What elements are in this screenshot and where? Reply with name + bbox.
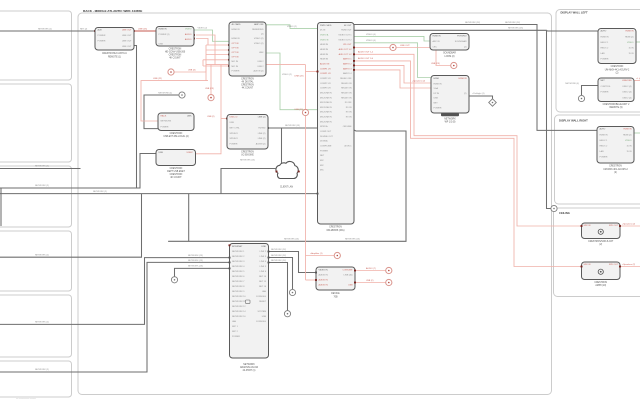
svg-text:LINE (2): LINE (2) [258,133,266,135]
svg-text:NETWORK 2: NETWORK 2 [232,256,245,258]
svg-text:4K IN: 4K IN [320,30,326,32]
svg-text:VIDEO (4): VIDEO (4) [366,34,376,36]
svg-text:UM-NMX-4K1-ACURV-2: UM-NMX-4K1-ACURV-2 [605,68,630,71]
svg-text:NETWORK 7: NETWORK 7 [232,281,245,283]
svg-text:INTERNET: INTERNET [232,246,243,248]
svg-text:CRESTRON: CRESTRON [170,168,183,170]
svg-text:4K DIGITAL: 4K DIGITAL [242,81,255,84]
svg-text:CRESTRON: CRESTRON [611,66,624,68]
svg-text:IR OFF: IR OFF [345,102,353,104]
svg-text:NETWORK (2): NETWORK (2) [35,369,49,371]
svg-text:HELIX 1: HELIX 1 [601,42,610,44]
svg-text:USB-EXT-DM-LOCAL (2): USB-EXT-DM-LOCAL (2) [163,135,189,138]
svg-text:POWER (1): POWER (1) [159,34,170,36]
svg-text:SPDIF/O: SPDIF/O [230,138,239,140]
svg-text:4K COUNT: 4K COUNT [170,177,182,179]
svg-text:HDMI IN: HDMI IN [320,49,328,51]
svg-text:VIDEO (2): VIDEO (2) [282,74,292,76]
svg-text:REMOTE (3): REMOTE (3) [609,107,622,109]
svg-text:USB 2: USB 2 [257,66,264,68]
svg-text:NETWORK (2X): NETWORK (2X) [188,255,203,257]
svg-text:DM-MD8X8 (DIG): DM-MD8X8 (DIG) [327,230,345,232]
svg-text:NET CTRL: NET CTRL [230,127,241,129]
svg-text:NETWORK 12: NETWORK 12 [232,306,246,308]
svg-text:WP 1/2 (8): WP 1/2 (8) [445,122,456,124]
svg-text:HDMI IN: HDMI IN [320,54,328,56]
svg-text:CRESTRON: CRESTRON [169,48,182,50]
svg-text:POWER: POWER [320,150,328,152]
svg-text:VIDEO A: VIDEO A [320,33,329,36]
svg-text:VIDEO OUT 2: VIDEO OUT 2 [338,39,352,41]
svg-text:USB: USB [159,152,164,154]
svg-text:4K COUNT: 4K COUNT [169,58,181,60]
svg-text:AUDIO: AUDIO [185,38,192,41]
svg-text:LAN: LAN [600,150,605,153]
svg-text:DP IN: DP IN [434,93,440,95]
svg-text:AUDIO: AUDIO [185,33,192,36]
svg-text:NETWORK 5: NETWORK 5 [232,271,245,273]
svg-text:VIDEO: VIDEO [625,140,632,142]
svg-text:NETWORK (2): NETWORK (2) [38,28,52,30]
svg-text:NETWORK 6: NETWORK 6 [232,276,245,278]
svg-text:MIC/LINE IN: MIC/LINE IN [320,97,332,99]
svg-text:NET 16: NET 16 [259,286,267,288]
svg-text:LINE OUT: LINE OUT [122,35,132,37]
svg-text:LINK 4: LINK 4 [260,261,267,263]
svg-text:NETWORK (13): NETWORK (13) [285,125,300,127]
svg-text:NETWORK 11: NETWORK 11 [232,301,246,303]
svg-text:POWER: POWER [230,144,238,146]
svg-text:— ————— ———: — ————— ——— [16,398,37,400]
svg-text:SOUNDBAR: SOUNDBAR [455,40,467,43]
svg-text:NETWORK (2): NETWORK (2) [93,191,107,193]
svg-text:RELAY ON: RELAY ON [341,82,352,85]
svg-text:AUX: AUX [98,28,103,31]
svg-text:UM-NMX-4K1-ACURV-2: UM-NMX-4K1-ACURV-2 [603,168,628,171]
svg-text:LINE OUT: LINE OUT [122,29,132,31]
svg-text:AUDIO IN: AUDIO IN [319,273,329,276]
svg-text:USB 2: USB 2 [257,61,264,63]
svg-text:MIC: MIC [320,165,324,167]
svg-text:4K COUNT: 4K COUNT [242,88,254,90]
svg-text:USB: USB [434,98,439,100]
svg-text:POWER: POWER [232,70,240,72]
svg-text:LINE OUT: LINE OUT [122,46,132,48]
svg-text:AMP OFF: AMP OFF [254,23,264,26]
svg-text:15 IN: 15 IN [629,48,634,50]
svg-text:NET: NET [434,103,439,105]
svg-text:NETWORK (2X): NETWORK (2X) [271,260,286,262]
svg-text:HDMI IN: HDMI IN [232,29,240,31]
svg-text:OFFLINE: OFFLINE [343,126,352,128]
svg-text:15 IN: 15 IN [627,151,632,153]
svg-text:RELAY OFF: RELAY OFF [340,77,352,80]
svg-text:DEPT USB ENET: DEPT USB ENET [167,171,185,173]
svg-text:AUDIO (7): AUDIO (7) [366,267,376,270]
svg-text:HDMI IN: HDMI IN [459,78,467,80]
svg-text:USB 2.0: USB 2.0 [230,117,239,119]
svg-text:VIDEO (2): VIDEO (2) [254,38,264,40]
svg-text:SPDIF/O: SPDIF/O [230,133,239,135]
svg-text:LINE (46): LINE (46) [344,274,353,276]
svg-text:+L (4): +L (4) [636,78,640,80]
svg-text:VIDEO: VIDEO [185,29,192,31]
svg-text:AUX/M (2): AUX/M (2) [256,143,266,146]
svg-text:HDMI OUT: HDMI OUT [341,30,352,32]
svg-text:LINE (2): LINE (2) [258,138,266,140]
svg-text:AUDIO OUT 3-4: AUDIO OUT 3-4 [358,57,374,60]
svg-text:HDMI IN: HDMI IN [159,29,167,31]
svg-text:LAN: LAN [262,290,267,293]
svg-text:PORT/NO: PORT/NO [457,36,467,38]
svg-text:RACK: RACK [161,114,167,117]
svg-text:USB: USB [348,285,353,287]
svg-text:+Amplifier (1): +Amplifier (1) [310,252,323,255]
svg-text:CRESTRON/SON-8-C6T: CRESTRON/SON-8-C6T [588,241,614,243]
svg-text:CRESTRON: CRESTRON [170,174,183,176]
svg-text:LINE OUT: LINE OUT [122,40,132,42]
svg-text:IR ON: IR ON [346,117,352,119]
svg-text:REMOTE (1): REMOTE (1) [108,56,121,58]
svg-text:COMP3 LR: COMP3 LR [320,88,331,90]
svg-text:POWER: POWER [232,336,240,338]
svg-text:CEC: CEC [433,46,438,48]
svg-text:NETWORK (2X): NETWORK (2X) [508,28,523,30]
svg-text:LINK: LINK [259,52,264,54]
svg-text:SPK OUT: SPK OUT [609,264,619,266]
svg-text:HD-CONV-USB-260: HD-CONV-USB-260 [165,51,186,53]
svg-text:LAN: LAN [232,320,237,323]
svg-text:NETWORK (13): NETWORK (13) [345,239,360,241]
svg-text:MIC/LINE IN: MIC/LINE IN [320,117,332,119]
svg-text:USB 2 (4): USB 2 (4) [622,86,631,88]
svg-text:USB: USB [230,122,235,124]
svg-text:OPT IN: OPT IN [232,43,239,45]
svg-text:NETWORK (2X): NETWORK (2X) [271,255,286,257]
svg-text:HDMI IN: HDMI IN [434,83,442,85]
svg-text:MIC/LINE IN: MIC/LINE IN [320,102,332,104]
svg-text:NET 15: NET 15 [259,281,267,283]
svg-text:AUTO: AUTO [601,30,607,33]
svg-text:AMP/O 2: AMP/O 2 [343,62,352,65]
svg-text:VIDEO IN: VIDEO IN [319,269,329,271]
svg-text:OPT IN: OPT IN [232,47,239,49]
svg-text:NETWORK 8: NETWORK 8 [232,286,245,288]
svg-text:VGA: VGA [434,87,439,90]
svg-text:RESERVED: RESERVED [252,29,264,31]
svg-text:USB (2X): USB (2X) [431,63,440,65]
svg-text:HDTBD: HDTBD [258,127,266,129]
svg-text:NET: NET [601,80,606,82]
svg-text:4K OUT: 4K OUT [344,25,352,27]
svg-text:MIC/LINE IN: MIC/LINE IN [320,112,332,114]
svg-text:VIDEO (2): VIDEO (2) [198,27,208,29]
svg-text:LINE (2): LINE (2) [258,117,266,119]
svg-text:NETWORK (4): NETWORK (4) [158,92,172,94]
svg-text:COMP OUT: COMP OUT [320,131,332,133]
svg-text:SOUNDBAR: SOUNDBAR [443,52,456,55]
svg-text:NETWORK (2X): NETWORK (2X) [505,22,520,24]
svg-text:HDMI (2): HDMI (2) [623,134,632,136]
svg-text:NETWORK (2X): NETWORK (2X) [188,266,203,268]
svg-text:CRESTRON/BLUE-MOT 2: CRESTRON/BLUE-MOT 2 [603,104,630,106]
svg-text:COM/LINE: COM/LINE [342,269,353,271]
svg-text:LINK: LINK [261,246,266,248]
svg-text:HDMI (2): HDMI (2) [625,36,634,38]
svg-text:SYSTEM: SYSTEM [257,311,266,313]
svg-text:HDMI IN: HDMI IN [600,134,608,136]
svg-text:+Speakers (2): +Speakers (2) [622,222,635,225]
svg-text:USB 2 (4): USB 2 (4) [622,92,631,94]
svg-text:COMP1 LR: COMP1 LR [320,73,331,75]
svg-text:VIDEO (2): VIDEO (2) [287,26,297,28]
svg-text:USB (3): USB (3) [188,69,196,71]
svg-text:MIC: MIC [320,160,324,162]
svg-text:DIGITAL: DIGITAL [320,140,329,143]
svg-text:NET: NET [320,155,325,157]
svg-text:AUTO: AUTO [600,128,606,131]
svg-text:MIC/LINE IN: MIC/LINE IN [320,121,332,123]
svg-text:MIC IN: MIC IN [232,61,239,63]
svg-text:48 VDC: 48 VDC [344,146,352,148]
svg-text:15 IN: 15 IN [627,146,632,148]
svg-text:OPT IN: OPT IN [232,52,239,54]
svg-text:NETWORK (2): NETWORK (2) [35,185,49,187]
svg-text:VIDEO (4): VIDEO (4) [366,40,376,42]
svg-text:MIC IN: MIC IN [232,66,239,68]
svg-text:CRESTRON: CRESTRON [241,85,254,87]
svg-text:(2): (2) [464,46,467,48]
svg-text:POWER: POWER [601,59,609,61]
svg-text:NETWORK 9: NETWORK 9 [232,291,245,293]
svg-text:HDMI IN: HDMI IN [232,38,240,40]
svg-text:NETWORK (4): NETWORK (4) [565,83,579,85]
svg-text:AUX IN (2): AUX IN (2) [253,69,263,72]
svg-text:SPKR A: SPKR A [320,125,328,128]
svg-text:LINE (2X): LINE (2X) [138,28,147,30]
svg-text:NETWORK 1: NETWORK 1 [232,251,245,253]
svg-text:NETWORK (2X): NETWORK (2X) [188,260,203,262]
svg-text:SFP 2: SFP 2 [232,331,239,333]
svg-text:AMP8 (10): AMP8 (10) [595,284,606,287]
svg-text:POWER: POWER [98,35,106,37]
svg-text:LINE/USB: LINE/USB [622,80,632,82]
svg-text:ARAKNIS AN-310: ARAKNIS AN-310 [240,366,259,369]
svg-text:+Speakers (2): +Speakers (2) [412,79,425,82]
svg-text:NETWORK: NETWORK [444,119,456,121]
svg-text:COMP2 LR: COMP2 LR [320,83,331,85]
svg-text:IR ON: IR ON [346,107,352,109]
svg-text:CEILING: CEILING [559,211,570,215]
svg-text:NETWORK 3: NETWORK 3 [232,261,245,263]
svg-text:POWER: POWER [434,107,442,109]
svg-text:USB (22): USB (22) [294,109,303,111]
svg-text:HDMI IN: HDMI IN [320,59,328,61]
svg-text:DEVICE: DEVICE [331,293,340,295]
svg-text:VIDEO: VIDEO [627,42,634,44]
svg-text:CONTROL: CONTROL [601,86,612,88]
svg-text:CRESTRON: CRESTRON [594,282,607,284]
svg-text:VIDEO (2): VIDEO (2) [254,43,264,45]
svg-text:+Pathlight (1): +Pathlight (1) [472,92,485,95]
svg-text:NETWORK: NETWORK [161,121,172,123]
svg-text:LINK: LINK [187,115,192,117]
svg-text:(2): (2) [614,172,617,174]
svg-text:USB/C: USB/C [187,152,194,154]
svg-text:USB: USB [159,44,164,46]
svg-text:AMP/O 3: AMP/O 3 [343,67,352,70]
svg-text:NETWORK (2): NETWORK (2) [35,166,49,168]
svg-text:CRESTRON: CRESTRON [241,78,254,80]
svg-text:RELAY ON: RELAY ON [341,91,352,94]
svg-text:+Speakers (2): +Speakers (2) [622,263,635,266]
svg-text:VIDEO OUT 1: VIDEO OUT 1 [338,34,352,36]
svg-text:CRESTRON: CRESTRON [169,55,182,57]
svg-text:AUDIO IN: AUDIO IN [320,62,330,65]
svg-text:USB (2): USB (2) [366,280,374,282]
svg-text:CONSOLE: CONSOLE [256,321,267,323]
svg-text:POWER: POWER [601,92,609,94]
svg-text:DISPLAY WALL RIGHT: DISPLAY WALL RIGHT [559,118,588,122]
svg-text:70B: 70B [333,296,338,298]
svg-text:AUDIO IN: AUDIO IN [319,279,329,282]
svg-text:15 IN: 15 IN [629,53,634,55]
svg-text:NETWORK 14: NETWORK 14 [232,311,246,313]
svg-text:NETWORK (2): NETWORK (2) [35,254,49,256]
svg-text:SFP 1: SFP 1 [232,326,239,328]
svg-text:MIC: MIC [320,170,324,172]
svg-text:HDMI IN: HDMI IN [626,31,634,33]
svg-text:HELIX 2: HELIX 2 [601,48,610,50]
svg-text:AUD OUT 1-2: AUD OUT 1-2 [339,48,353,51]
svg-text:USB (2): USB (2) [207,116,215,118]
svg-text:UC-ENGINE: UC-ENGINE [241,155,254,157]
svg-text:USB: USB [262,316,267,318]
svg-text:LINK 6: LINK 6 [260,271,267,273]
svg-text:OPT IN: OPT IN [232,57,239,59]
svg-text:NETWORK 16: NETWORK 16 [232,316,246,318]
svg-text:RELAY ON: RELAY ON [341,96,352,99]
svg-text:CRESTRON: CRESTRON [329,227,342,229]
svg-text:CRESTRONUC-MX70-U: CRESTRONUC-MX70-U [102,53,127,55]
svg-text:COMP2 LR: COMP2 LR [320,78,331,80]
svg-text:ARC IN: ARC IN [433,40,441,43]
svg-text:NET 14: NET 14 [259,276,267,278]
svg-text:LINK 3: LINK 3 [260,256,267,258]
svg-text:SPK IN: SPK IN [584,225,591,227]
svg-text:4K CARD: 4K CARD [232,23,242,26]
svg-text:CRESTRON: CRESTRON [609,166,622,168]
svg-text:RACK - MIDDLE ATLANTIC WRK 443: RACK - MIDDLE ATLANTIC WRK 44365E [83,9,142,13]
svg-text:LINE OUT: LINE OUT [400,45,410,47]
svg-text:SPK OUT: SPK OUT [609,225,619,227]
svg-text:NETWORK 10: NETWORK 10 [232,296,246,298]
svg-text:24-PORT (1): 24-PORT (1) [243,370,256,372]
svg-text:NETWORK (2X): NETWORK (2X) [271,249,286,251]
svg-text:LINE (22): LINE (22) [153,78,162,80]
svg-text:CRESTRON: CRESTRON [170,133,183,135]
svg-text:DIGITAL OUT: DIGITAL OUT [320,135,334,138]
svg-text:RELAY ON: RELAY ON [341,87,352,90]
svg-text:LINK 5: LINK 5 [260,266,267,268]
svg-text:POWER: POWER [98,40,106,42]
svg-text:AUDIO IN: AUDIO IN [319,284,329,287]
svg-text:PWR CHKD: PWR CHKD [320,25,332,27]
svg-text:DISPLAY WALL LEFT: DISPLAY WALL LEFT [561,11,588,15]
svg-text:(2): (2) [616,72,619,74]
svg-text:NETWORK (2): NETWORK (2) [35,322,49,324]
svg-text:AMP/O 4: AMP/O 4 [343,72,352,75]
svg-text:HDMI IN: HDMI IN [320,44,328,46]
svg-text:NETWORK (2X): NETWORK (2X) [465,22,480,24]
svg-text:USB (2X): USB (2X) [205,88,214,90]
svg-text:NETWORK (13): NETWORK (13) [284,239,299,241]
svg-text:MIC/LINE IN: MIC/LINE IN [320,107,332,109]
svg-text:COMP1 LR: COMP1 LR [320,68,331,70]
svg-text:LINE (2X): LINE (2X) [294,76,303,78]
svg-text:LAN: LAN [601,52,606,55]
svg-text:VID OUT: VID OUT [343,44,352,46]
svg-text:AUDIO OUT 1-2: AUDIO OUT 1-2 [358,51,374,54]
svg-text:HDMI IN: HDMI IN [601,36,609,38]
svg-text:IR ON: IR ON [346,112,352,114]
svg-text:RESET: RESET [259,301,267,303]
svg-text:VIDEO B: VIDEO B [320,39,329,41]
svg-text:LOOM (2): LOOM (2) [444,56,454,58]
svg-text:MIC/LINE IN: MIC/LINE IN [320,92,332,94]
svg-text:CRESTRON: CRESTRON [241,152,254,154]
svg-text:SPK IN: SPK IN [584,264,591,266]
svg-text:HDMI IN: HDMI IN [433,36,441,38]
svg-text:HELIX 2: HELIX 2 [600,146,609,148]
svg-text:HDMI: HDMI [434,78,440,80]
svg-text:POWER: POWER [600,157,608,159]
svg-text:AUD OUT 1-2: AUD OUT 1-2 [339,53,353,56]
svg-text:USB 2 (4): USB 2 (4) [622,97,631,99]
svg-text:NETWORK (13): NETWORK (13) [240,160,255,162]
svg-text:HDMI IN: HDMI IN [624,129,632,131]
svg-text:CLIENT LAN: CLIENT LAN [280,186,293,189]
svg-text:AMP/O 1: AMP/O 1 [343,58,352,61]
svg-text:(2): (2) [464,93,467,95]
svg-text:(2): (2) [261,34,264,36]
svg-text:POWER: POWER [161,127,169,129]
svg-text:NETWORK 4: NETWORK 4 [232,266,245,268]
svg-text:LINK 2: LINK 2 [260,251,267,253]
svg-text:NETWORK: NETWORK [243,364,255,366]
svg-text:CONSOLE: CONSOLE [256,296,267,298]
svg-text:NET (2): NET (2) [80,29,88,31]
svg-text:COMP/LINE: COMP/LINE [320,146,332,148]
svg-text:HELIX 1: HELIX 1 [600,140,609,142]
svg-text:(2): (2) [599,244,602,246]
